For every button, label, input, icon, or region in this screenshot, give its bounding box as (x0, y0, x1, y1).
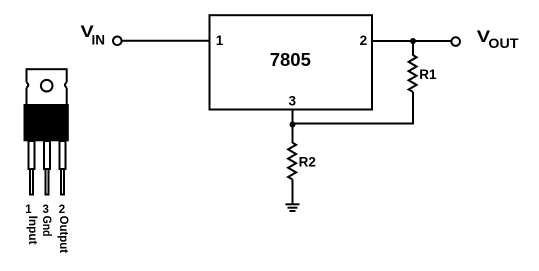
ground (286, 204, 300, 211)
TO-220 leg 2 (60, 141, 66, 195)
TO-220 body (24, 104, 69, 141)
wire pin 3 down to node B (292, 110, 294, 126)
TO-220 package tab outline (27, 69, 67, 105)
svg-text:Input: Input (26, 216, 38, 245)
TO-220 tab right notch (65, 82, 69, 87)
svg-text:Gnd: Gnd (40, 216, 52, 237)
wire pin 2 to VOUT (371, 40, 452, 42)
svg-text:2: 2 (59, 204, 65, 216)
svg-text:R1: R1 (419, 67, 437, 82)
junction node A (410, 38, 416, 44)
resistor R2 (288, 143, 296, 180)
svg-text:1: 1 (25, 204, 32, 216)
terminal VIN (113, 37, 122, 46)
svg-text:R2: R2 (299, 155, 316, 170)
wire VIN to pin 1 (122, 40, 210, 42)
wire node B down to R2 (292, 125, 294, 144)
TO-220 tab left notch (25, 82, 29, 87)
resistor R1 (409, 55, 417, 92)
regulator U1 7805 box (210, 15, 373, 109)
svg-text:3: 3 (42, 204, 48, 216)
svg-text:7805: 7805 (270, 49, 311, 70)
terminal VOUT (451, 37, 460, 46)
svg-text:1: 1 (216, 33, 224, 48)
wire R2 to ground (292, 179, 294, 204)
label VIN (81, 22, 106, 48)
svg-text:OUT: OUT (488, 35, 518, 51)
TO-220 leg 1 (29, 141, 35, 195)
wire node A down to R1 (412, 41, 414, 56)
svg-text:IN: IN (92, 32, 106, 48)
svg-text:3: 3 (289, 93, 297, 108)
label VOUT (477, 27, 519, 51)
svg-text:Output: Output (57, 216, 69, 254)
wire R1 bottom (412, 92, 414, 124)
junction node B (290, 122, 296, 128)
TO-220 leg 3 (middle) (44, 141, 50, 195)
TO-220 mounting hole (41, 80, 53, 92)
wire R1 to node B (293, 123, 415, 125)
svg-text:2: 2 (360, 33, 368, 48)
